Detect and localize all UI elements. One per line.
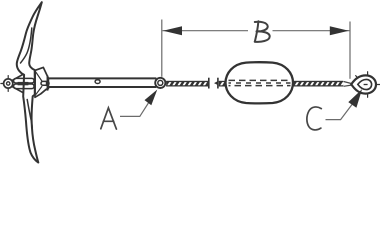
swivel eye tick marks	[1, 76, 8, 92]
dimension B line	[163, 30, 249, 32]
eye splice tick marks	[356, 72, 380, 98]
label A arrowhead	[145, 90, 158, 106]
upper fluke twist line	[21, 28, 32, 63]
swivel links	[14, 78, 34, 88]
eye splice (node C)	[351, 75, 376, 93]
shank end ring (node A)	[155, 78, 165, 88]
hub right bar	[47, 76, 49, 91]
label B	[255, 21, 270, 42]
dimension B left extension line	[161, 20, 163, 77]
hidden rope dashes	[229, 80, 291, 85]
float	[226, 62, 294, 103]
label C	[307, 107, 321, 130]
rope segment 1	[166, 81, 208, 87]
shank hole	[95, 80, 100, 84]
rope segment 3	[293, 81, 344, 87]
label A leader line	[120, 101, 150, 117]
hub pin slot	[41, 81, 49, 85]
anchor hub plate	[35, 67, 48, 97]
rope break caps	[208, 78, 210, 89]
swivel body	[13, 73, 26, 94]
label C arrowhead	[348, 89, 362, 108]
anchor fluke blade	[17, 2, 42, 162]
anchor shank	[48, 78, 156, 87]
lower fluke twist line	[27, 100, 32, 128]
rope segment 2	[219, 81, 227, 87]
label C leader line	[326, 105, 353, 120]
hub crease lines	[36, 72, 42, 94]
dimension B right extension line	[349, 22, 351, 79]
swivel eye ring	[4, 79, 13, 88]
rope splice neck	[344, 82, 352, 87]
dimension B left arrowhead	[163, 26, 182, 35]
dimension B right arrowhead	[330, 26, 349, 35]
label A	[101, 108, 117, 129]
